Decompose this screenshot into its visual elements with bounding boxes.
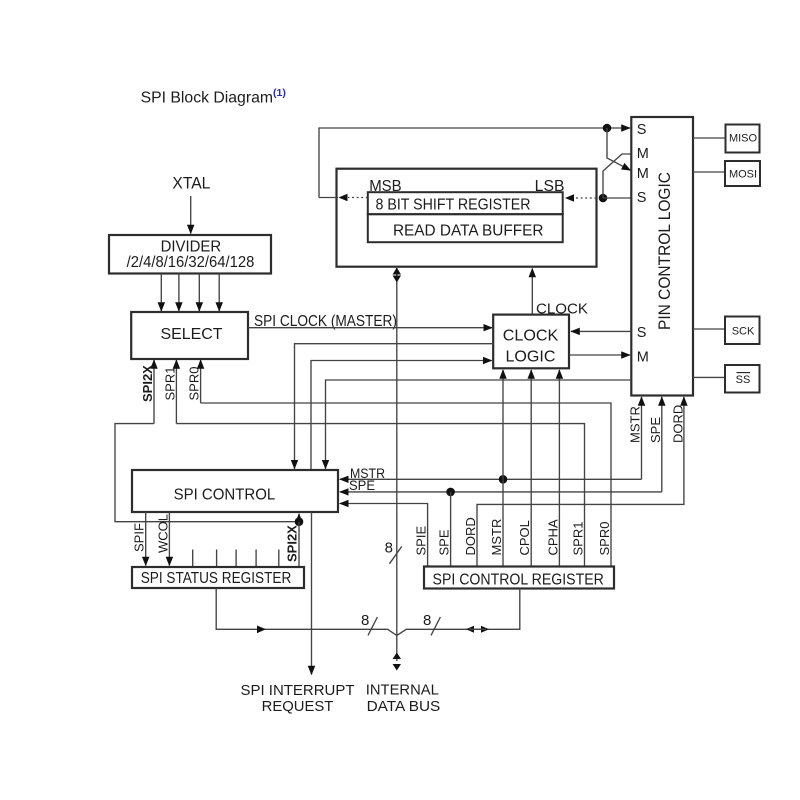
label INTERNAL DATA BUS — [366, 682, 441, 716]
wire clock from shift register to clock logic — [531, 269, 533, 315]
svg-text:SPE: SPE — [349, 478, 375, 493]
svg-text:SPI2X: SPI2X — [140, 365, 155, 402]
svg-text:M: M — [637, 350, 649, 366]
SS box (active low overline) — [725, 365, 760, 393]
wire SPE vertical into pin control — [661, 397, 663, 492]
wire status register to bus with arrow — [216, 589, 397, 636]
status register unused bit tick 2 — [216, 550, 218, 568]
8 bit shift register box — [368, 192, 563, 214]
slash left bus — [368, 617, 377, 635]
svg-text:MOSI: MOSI — [729, 169, 757, 181]
status register unused bit tick 1 — [192, 550, 194, 568]
wire SPI2X long path select to status register — [115, 424, 303, 567]
svg-text:DATA BUS: DATA BUS — [367, 698, 441, 715]
wire MSTR bit to clock logic — [502, 370, 504, 566]
spi status register box — [132, 567, 304, 588]
wire MSTR horizontal into spi control — [340, 478, 642, 480]
svg-text:S: S — [637, 122, 647, 138]
svg-text:8 BIT SHIFT REGISTER: 8 BIT SHIFT REGISTER — [376, 197, 531, 214]
svg-text:SPI INTERRUPT: SPI INTERRUPT — [241, 682, 355, 699]
junction dot on lower S line — [599, 194, 608, 203]
pin control logic box — [631, 117, 693, 396]
svg-text:MSTR: MSTR — [628, 406, 643, 443]
svg-text:DORD: DORD — [463, 517, 478, 555]
wire divider to select arrow 4 — [218, 274, 220, 312]
spi control register box — [424, 567, 614, 589]
wire clock logic to pin control M arrow — [569, 354, 630, 356]
svg-text:PIN CONTROL LOGIC: PIN CONTROL LOGIC — [656, 172, 674, 330]
svg-text:SS: SS — [736, 374, 751, 386]
slash right bus — [431, 617, 440, 635]
svg-text:SPI CONTROL: SPI CONTROL — [174, 487, 276, 504]
svg-text:/2/4/8/16/32/64/128: /2/4/8/16/32/64/128 — [127, 254, 255, 271]
wire pin control to MOSI — [693, 171, 725, 173]
junction dot SPE — [446, 488, 455, 497]
svg-text:CPOL: CPOL — [517, 520, 532, 555]
svg-text:DIVIDER: DIVIDER — [161, 238, 222, 255]
wire MSTR vertical into pin control — [641, 397, 643, 479]
divider box — [109, 235, 271, 274]
status register unused bit tick 4 — [255, 550, 257, 568]
MISO box — [726, 125, 760, 153]
wire pin control to MISO — [693, 137, 726, 139]
svg-text:CPHA: CPHA — [545, 519, 560, 555]
wire SPIF arrow into status register — [145, 512, 147, 566]
svg-text:8: 8 — [361, 612, 369, 629]
svg-text:MISO: MISO — [729, 133, 758, 145]
wire pin control to spi control (down arrow) — [326, 380, 632, 469]
wire lower S to pin control — [603, 197, 631, 199]
svg-text:REQUEST: REQUEST — [262, 698, 334, 715]
svg-text:SPR1: SPR1 — [571, 522, 586, 556]
wire pin control to SS — [693, 376, 725, 378]
wire control register to bus — [397, 589, 520, 636]
svg-text:SPI Block Diagram: SPI Block Diagram — [141, 90, 273, 107]
svg-text:WCOL: WCOL — [155, 514, 170, 553]
wire SPR0 into select bottom — [200, 360, 202, 403]
svg-text:SELECT: SELECT — [161, 326, 223, 343]
wire pin control to SCK — [693, 328, 725, 330]
svg-text:SPE: SPE — [437, 529, 452, 555]
wire SPE horizontal into spi control — [340, 491, 662, 493]
wire XTAL arrow into divider — [190, 196, 192, 234]
wire spi interrupt request arrow — [311, 512, 313, 675]
svg-text:DORD: DORD — [671, 405, 686, 443]
junction dot on S line — [603, 124, 612, 133]
wire SPR0 long path — [201, 403, 611, 566]
read data buffer box — [368, 214, 563, 242]
svg-text:LOGIC: LOGIC — [506, 349, 556, 366]
bus slash on internal data bus — [389, 546, 401, 563]
spi control box — [132, 470, 338, 512]
svg-text:S: S — [637, 190, 647, 206]
svg-text:SPR0: SPR0 — [187, 367, 202, 401]
svg-text:SPIE: SPIE — [414, 526, 429, 556]
svg-text:SPI2X: SPI2X — [285, 525, 300, 562]
internal data bus vertical with top double arrow — [393, 267, 401, 636]
wire top feedback MISO loop — [319, 128, 630, 198]
wire SPE bit vertical — [450, 492, 452, 566]
wire pin control S to clock logic (left arrow) — [571, 330, 631, 332]
SCK box — [725, 317, 760, 345]
svg-text:SPR1: SPR1 — [162, 367, 177, 401]
wire CPHA bit to clock logic — [558, 370, 560, 566]
wire SPR1 long path — [176, 424, 584, 566]
select box — [131, 312, 248, 359]
title: SPI Block Diagram — [141, 87, 286, 107]
svg-text:SCK: SCK — [732, 326, 755, 338]
svg-text:READ DATA BUFFER: READ DATA BUFFER — [393, 222, 544, 239]
MOSI box — [725, 161, 760, 186]
wire spi clock master: select to clock logic — [248, 327, 492, 329]
wire DORD from register to pin control — [477, 397, 684, 566]
wire divider to select arrow 2 — [178, 274, 180, 312]
status register unused bit tick 3 — [235, 550, 237, 568]
wire cross from top S down to M2 — [607, 128, 631, 170]
internal data bus bottom double arrow — [393, 636, 401, 671]
svg-text:8: 8 — [423, 612, 431, 629]
wire spi control to clock logic (right arrow) — [311, 361, 492, 471]
wire cross from lower S up to M1 — [603, 154, 631, 198]
wire dotted arrow into LSB from junction — [565, 194, 601, 202]
svg-text:(1): (1) — [273, 87, 286, 99]
svg-text:CLOCK: CLOCK — [503, 328, 559, 345]
svg-text:SPIF: SPIF — [132, 523, 147, 552]
svg-text:8: 8 — [385, 540, 393, 557]
wire SPIE bit into spi control — [340, 504, 428, 566]
shift register outer box — [337, 169, 597, 267]
svg-text:INTERNAL: INTERNAL — [366, 682, 439, 699]
wire SPI2X into select bottom — [153, 360, 155, 424]
wire solid stub into shift register left — [319, 197, 338, 199]
svg-text:SPI CONTROL REGISTER: SPI CONTROL REGISTER — [433, 572, 604, 589]
wire CPOL bit to clock logic — [530, 370, 532, 566]
svg-text:XTAL: XTAL — [172, 175, 210, 193]
wire SPR1 into select bottom — [175, 360, 177, 424]
svg-text:SPI STATUS REGISTER: SPI STATUS REGISTER — [141, 570, 292, 587]
label SPI INTERRUPT REQUEST — [241, 682, 355, 715]
svg-text:S: S — [637, 325, 647, 341]
wire divider to select arrow 3 — [198, 274, 200, 312]
wire dotted arrow into MSB — [339, 194, 368, 202]
clock logic box — [493, 315, 569, 369]
wire clock logic to spi control (down arrow) — [295, 344, 495, 469]
svg-text:MSTR: MSTR — [489, 519, 504, 556]
svg-text:M: M — [637, 166, 649, 182]
double arrow on control register bus — [466, 626, 489, 633]
svg-text:SPE: SPE — [648, 417, 663, 443]
junction dot MSTR — [499, 475, 508, 484]
svg-text:M: M — [637, 146, 649, 162]
wire divider to select arrow 1 — [160, 274, 162, 312]
svg-text:SPR0: SPR0 — [597, 522, 612, 556]
wire WCOL arrow into status register — [168, 512, 170, 566]
status register unused bit tick 5 — [278, 550, 280, 568]
